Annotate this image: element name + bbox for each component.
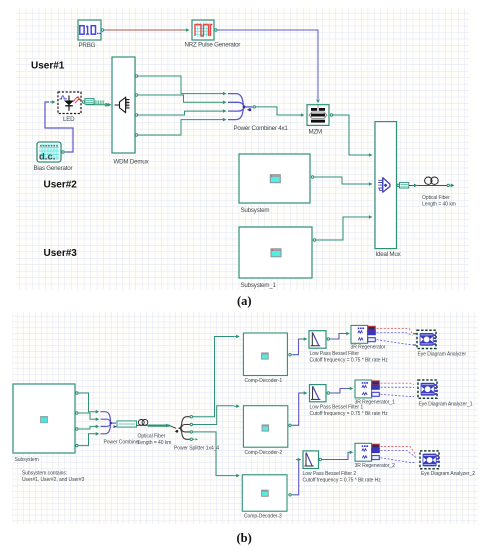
Power Combiner (b): [101, 412, 117, 434]
svg-text:Cutoff frequency = 0.75 * Bit: Cutoff frequency = 0.75 * Bit rate Hz: [310, 358, 389, 364]
svg-text:Eye Diagram Analyzer_2: Eye Diagram Analyzer_2: [421, 471, 475, 477]
dashed wire 3R out3 to Eye (blue): [377, 340, 413, 345]
MZM top input port: [316, 100, 320, 104]
Power Combiner 4x1 label: [234, 125, 289, 132]
wire PRBG to NRZ (binary, red): [106, 28, 190, 32]
Low Pass Bessel Filter 1 labels: [310, 405, 389, 418]
Power Splitter 1x4_4: [175, 417, 192, 440]
MZM label: [309, 129, 323, 136]
3R Regenerator_2 box: [355, 443, 379, 461]
Eye Diagram Analyzer label: [418, 352, 467, 358]
dashed wires 3R_1 to Eye_1: [381, 383, 415, 384]
svg-text:Power Combiner: Power Combiner: [104, 440, 141, 446]
svg-text:Comp-Decoder-2: Comp-Decoder-2: [245, 450, 283, 456]
MZM box: [307, 105, 329, 126]
Subsystem output port: [311, 176, 315, 178]
wire WDM out1 to combiner in1: [140, 76, 227, 95]
Ideal Mux output port: [397, 184, 401, 186]
wire CD1 to LPBF1 (electrical): [293, 337, 307, 355]
LPBF_1 output port: [327, 392, 331, 394]
svg-text:Length = 40 km: Length = 40 km: [138, 440, 172, 446]
svg-text:Eye Diagram Analyzer_1: Eye Diagram Analyzer_1: [419, 402, 473, 408]
panel (a) grid background: [16, 8, 469, 290]
3R Regenerator_1 box: [355, 380, 379, 398]
WDM Demux box: [112, 57, 135, 153]
svg-text:WDM Demux: WDM Demux: [114, 159, 150, 166]
Ideal Mux label: [376, 251, 402, 258]
Comp-Decoder-2 output port: [289, 424, 293, 426]
Comp-Decoder-3 box: [242, 475, 287, 511]
svg-text:(b): (b): [237, 531, 252, 545]
wire subsystem out4 to combiner in4: [80, 432, 99, 446]
optical connector after LED: [85, 99, 108, 106]
svg-text:d.c.: d.c.: [39, 152, 55, 163]
Subsystem_1 box: [239, 227, 312, 278]
wire combiner to MZM: [257, 107, 304, 117]
svg-text:MZM: MZM: [309, 129, 323, 136]
svg-text:Bias Generator: Bias Generator: [34, 165, 73, 172]
3R Regenerator_2 label: [355, 463, 396, 469]
Subsystem box: [239, 154, 310, 203]
wire WDM out3 to combiner in3: [140, 109, 227, 115]
WDM Demux input port: [106, 103, 112, 107]
Subsystem_1 label: [241, 282, 277, 289]
svg-text:NRZ Pulse Generator: NRZ Pulse Generator: [185, 42, 241, 49]
wire CD3 to LPBF_2: [293, 458, 301, 495]
Ideal Mux box: [375, 122, 397, 249]
NRZ Pulse Generator box: [192, 20, 214, 40]
PRBG label: [79, 42, 96, 49]
Power Splitter 1x4_4 label: [174, 446, 219, 452]
svg-text:Cutoff frequency = 0.75 * Bit: Cutoff frequency = 0.75 * Bit rate Hz: [303, 478, 382, 484]
Subsystem label: [241, 207, 270, 214]
Comp-Decoder-2 box: [243, 406, 287, 448]
wire NRZ to MZM top (electrical, blue): [219, 30, 319, 99]
LPBF_2 output port: [319, 458, 323, 460]
wire LPBF_2 to 3R_2: [323, 451, 353, 460]
LED output port: [82, 101, 86, 103]
svg-text:Eye Diagram Analyzer: Eye Diagram Analyzer: [418, 352, 467, 358]
Comp-Decoder-1 label: [245, 378, 283, 384]
Subsystem box (b): [13, 384, 75, 453]
WDM Demux output ports: [135, 75, 139, 136]
optical connector after combiner (b): [117, 421, 137, 427]
MZM side ports: [330, 114, 334, 116]
wire LPBF1 to 3R Regenerator: [331, 332, 350, 339]
dashed wire 3R out1 to Eye (red): [377, 329, 413, 334]
wire Subsystem_1 to Ideal Mux in3: [318, 215, 373, 240]
Low Pass Bessel Filter 1 box: [310, 385, 327, 402]
dashed wire 3R out2 to Eye (blue): [377, 333, 413, 336]
wire splitter out2 to Comp-Decoder-2: [194, 404, 240, 424]
Optical Fiber label (a): [422, 195, 456, 208]
svg-text:3R Regenerator_1: 3R Regenerator_1: [355, 400, 396, 406]
label User#1: [31, 61, 65, 72]
wire subsystem out1 to combiner in1: [80, 393, 99, 414]
svg-text:Subsystem_1: Subsystem_1: [241, 282, 277, 289]
svg-text:LED: LED: [63, 116, 75, 123]
LED input port: [50, 100, 56, 104]
svg-text:Optical Fiber: Optical Fiber: [422, 195, 450, 201]
svg-text:Comp-Decoder-3: Comp-Decoder-3: [244, 514, 282, 520]
Eye Diagram Analyzer box: [413, 330, 436, 348]
svg-text:3R Regenerator: 3R Regenerator: [351, 345, 386, 351]
Bias Generator output port: [62, 151, 66, 153]
3R Regenerator label: [351, 345, 386, 351]
svg-text:Power Combiner 4x1: Power Combiner 4x1: [234, 125, 289, 132]
optical connector after Ideal Mux: [400, 183, 409, 188]
3R Regenerator_1 label: [355, 400, 396, 406]
label User#2: [44, 180, 78, 191]
Subsystem (b) output ports: [76, 392, 80, 447]
Low Pass Bessel Filter box: [309, 331, 326, 349]
caption (b): [237, 531, 252, 545]
Eye Diagram Analyzer_1 box: [418, 380, 437, 398]
Power Combiner 4x1 output port: [253, 106, 257, 108]
NRZ output port: [215, 29, 219, 31]
Comp-Decoder-2 label: [245, 450, 283, 456]
svg-text:PRBG: PRBG: [79, 42, 96, 49]
Power Splitter output ports: [190, 416, 198, 441]
Comp-Decoder-3 output port: [289, 494, 293, 496]
Subsystem (b) label: [15, 457, 39, 463]
wire WDM out2 to combiner in2: [140, 95, 227, 104]
Eye Diagram Analyzer_2 box: [420, 451, 439, 469]
Comp-Decoder-1 box: [243, 333, 287, 376]
Eye Diagram Analyzer_2 label: [421, 471, 475, 477]
Optical Fiber (b) labels: [138, 434, 172, 447]
Low Pass Bessel Filter 2 labels: [303, 471, 382, 484]
svg-text:Ideal Mux: Ideal Mux: [376, 251, 402, 258]
dashed wires 3R_2 to Eye_2: [381, 447, 417, 456]
wire splitter out3 to Comp-Decoder-3: [194, 432, 240, 478]
wire CD2 to LPBF_1: [293, 391, 307, 425]
wire LPBF_1 to 3R_1: [331, 387, 353, 393]
PRBG output port: [101, 29, 105, 31]
note: subsystem contents: [22, 471, 85, 484]
Low Pass Bessel Filter 2 box: [303, 451, 319, 469]
Comp-Decoder-3 label: [244, 514, 282, 520]
Subsystem_1 output port: [313, 239, 317, 241]
svg-text:(a): (a): [237, 294, 252, 308]
LED label: [63, 116, 75, 123]
caption (a): [237, 294, 252, 308]
Power Combiner 4x1: [228, 94, 253, 120]
wire MZM to Ideal Mux in1: [335, 115, 373, 157]
NRZ Pulse Generator label: [185, 42, 241, 49]
wire WDM out4 to combiner in4: [140, 118, 227, 135]
svg-text:Low Pass Bessel Filter: Low Pass Bessel Filter: [310, 351, 360, 357]
Power Combiner (b) label: [104, 440, 141, 446]
svg-text:Length = 40 km: Length = 40 km: [422, 202, 456, 208]
svg-text:Optical Fiber: Optical Fiber: [138, 434, 166, 440]
svg-text:Low Pass Bessel Filter 2: Low Pass Bessel Filter 2: [303, 471, 357, 477]
WDM Demux label: [114, 159, 150, 166]
svg-text:User#1: User#1: [31, 61, 65, 72]
svg-text:Subsystem contains:: Subsystem contains:: [22, 471, 67, 477]
svg-text:Comp-Decoder-1: Comp-Decoder-1: [245, 378, 283, 384]
Optical Fiber component (b): line, coil: [137, 420, 177, 429]
svg-text:3R Regenerator_2: 3R Regenerator_2: [355, 463, 396, 469]
Bias Generator box: [37, 142, 61, 163]
Optical Fiber component (a): line, input arrow, coil, end port: [409, 177, 453, 187]
panel (b) grid background: [12, 312, 478, 524]
svg-text:User#1, User#2, and User#3: User#1, User#2, and User#3: [22, 477, 85, 483]
PRBG generator box: [78, 20, 101, 40]
svg-text:Power Splitter 1x4_4: Power Splitter 1x4_4: [174, 446, 219, 452]
LPBF1 output port: [327, 338, 331, 340]
wire subsystem out3 to combiner in3: [80, 425, 99, 429]
Low Pass Bessel Filter labels: [310, 351, 389, 364]
Eye Diagram Analyzer_1 label: [419, 402, 473, 408]
svg-text:Subsystem: Subsystem: [241, 207, 270, 214]
Comp-Decoder-1 output port: [289, 354, 293, 356]
wire Bias Generator to LED (electrical, blue): [45, 102, 73, 152]
svg-text:Subsystem: Subsystem: [15, 457, 39, 463]
svg-text:Cutoff frequency = 0.75 * Bit: Cutoff frequency = 0.75 * Bit rate Hz: [310, 411, 389, 417]
wire LED to WDM Demux (optical): [86, 104, 108, 106]
wire subsystem out2 to combiner in2: [80, 413, 99, 421]
Bias Generator label: [34, 165, 73, 172]
label User#3: [44, 248, 78, 259]
svg-text:User#3: User#3: [44, 248, 78, 259]
wire Subsystem to Ideal Mux in2: [316, 177, 373, 186]
LED box (dashed border): [58, 92, 81, 114]
svg-text:User#2: User#2: [44, 180, 78, 191]
wire splitter out1 to Comp-Decoder-1: [194, 335, 240, 417]
3R Regenerator box: [351, 325, 375, 343]
